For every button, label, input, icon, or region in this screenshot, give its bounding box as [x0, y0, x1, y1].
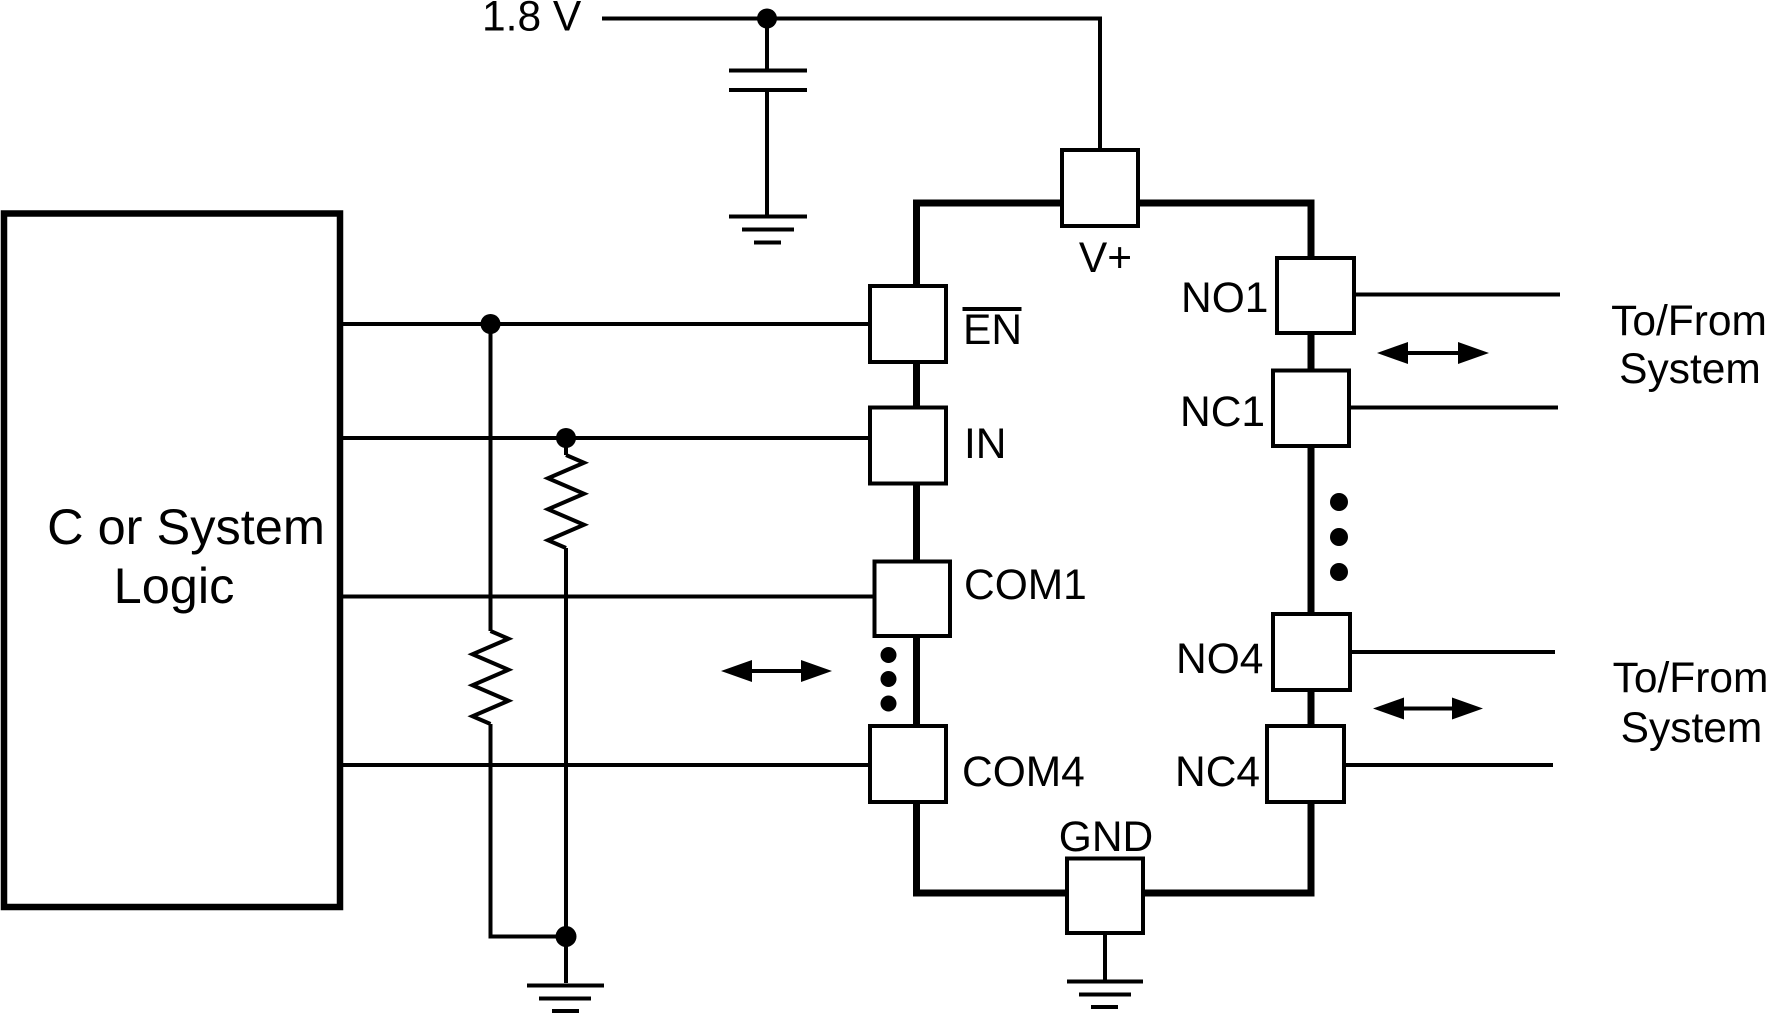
wire IN pulldown upper: [564, 438, 568, 455]
junction supply/cap: [757, 9, 777, 29]
pin box NO4: [1273, 614, 1350, 690]
pin box NO1: [1277, 258, 1354, 333]
wire GND to ground: [1103, 933, 1107, 980]
wire IN: [343, 436, 870, 440]
svg-text:NC4: NC4: [1175, 749, 1260, 796]
svg-text:System: System: [1619, 346, 1761, 393]
capacitor C1: [729, 71, 807, 91]
pin box EN: [870, 286, 946, 362]
wire EN pulldown lower: [491, 724, 567, 937]
pin box COM1: [875, 562, 951, 637]
wire junction to capacitor: [765, 19, 769, 70]
junction IN/pulldown: [556, 428, 576, 448]
label C or System Logic: [47, 498, 325, 614]
svg-text:1.8 V: 1.8 V: [482, 0, 582, 41]
junction pulldown ground node: [556, 926, 577, 947]
IC outline U1: [917, 203, 1312, 893]
resistor R2: [473, 631, 509, 724]
wire EN: [343, 322, 870, 326]
pin box NC4: [1267, 726, 1344, 802]
resistor R1: [548, 455, 584, 548]
wire COM4: [343, 763, 870, 767]
wire EN pulldown upper: [489, 324, 493, 631]
svg-text:System: System: [1621, 705, 1763, 752]
ground (GND pin): [1067, 982, 1143, 1008]
block uC / System Logic: [4, 214, 340, 908]
pin box GND: [1067, 859, 1143, 934]
label To/From System (lower): [1613, 655, 1767, 752]
svg-text:GND: GND: [1059, 814, 1153, 861]
pin box IN: [870, 408, 946, 484]
arrow NO4/NC4 bidirectional: [1373, 698, 1483, 720]
wire IN pulldown lower: [564, 548, 568, 983]
pin box NC1: [1273, 371, 1349, 447]
ellipsis dots NC1..NO4: [1330, 493, 1348, 581]
svg-text:To/From: To/From: [1613, 655, 1767, 702]
svg-text:Logic: Logic: [114, 557, 235, 614]
ellipsis dots COM1..COM4: [881, 647, 897, 712]
junction EN/pulldown: [481, 314, 501, 334]
pin label EN (with overline): [963, 307, 1023, 354]
arrow COM bidirectional: [721, 660, 832, 682]
svg-text:COM1: COM1: [964, 562, 1087, 609]
arrow NO1/NC1 bidirectional: [1377, 342, 1489, 364]
svg-text:COM4: COM4: [962, 749, 1085, 796]
ground (capacitor): [729, 217, 807, 243]
svg-text:To/From: To/From: [1611, 298, 1767, 345]
svg-text:V+: V+: [1079, 235, 1132, 282]
wire capacitor to ground: [765, 92, 769, 215]
wire 1.8V supply to V+: [602, 19, 1100, 151]
svg-text:EN: EN: [963, 307, 1022, 354]
svg-text:IN: IN: [964, 421, 1007, 468]
svg-text:C or System: C or System: [47, 498, 325, 555]
wire NC1 to system: [1349, 406, 1558, 410]
wire COM1: [343, 595, 875, 599]
svg-text:NC1: NC1: [1180, 389, 1265, 436]
label To/From System (upper): [1611, 298, 1767, 393]
svg-text:NO1: NO1: [1181, 275, 1268, 322]
ground (pulldown resistors): [527, 986, 604, 1012]
pin box V+: [1062, 150, 1138, 226]
wire NC4 to system: [1344, 763, 1553, 767]
pin box COM4: [870, 726, 946, 802]
wire NO4 to system: [1350, 650, 1555, 654]
wire NO1 to system: [1354, 293, 1560, 297]
svg-text:NO4: NO4: [1176, 636, 1263, 683]
